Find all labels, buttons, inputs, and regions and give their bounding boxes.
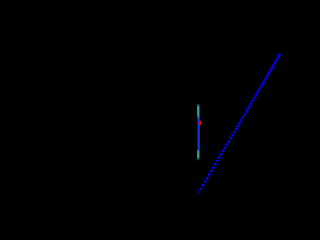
velocity vector (blue vertical segment) xyxy=(197,115,199,152)
acceleration arrow (red marker) xyxy=(198,121,201,125)
rod (teal vertical bar) xyxy=(197,103,199,161)
trajectory dotted line (blue dots) xyxy=(197,53,281,194)
